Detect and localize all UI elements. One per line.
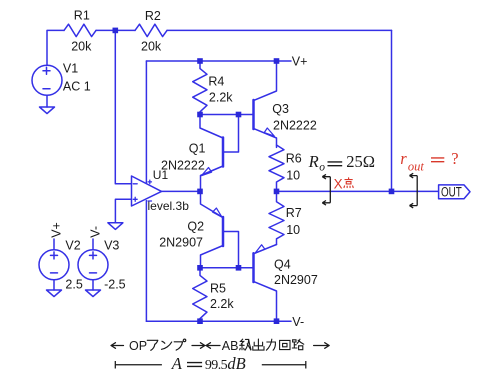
wire top-left from V1 to R1 [47,30,64,65]
node net B at R5 top [197,265,203,271]
svg-text:2.2k: 2.2k [209,91,233,105]
wire V3 to ground [92,280,94,290]
transistor Q2 [201,191,239,267]
transistor Q4 [254,245,277,322]
wire non-inverting input to ground [115,199,131,223]
kanji pu (katakana) [174,339,186,350]
svg-text:V+: V+ [50,222,64,238]
svg-text:X: X [334,176,343,191]
svg-text:20k: 20k [141,39,162,53]
node Q3 collector on V+ rail [274,58,280,64]
node X point at R6-R7 [274,189,280,195]
svg-text:Q4: Q4 [274,258,291,272]
wire net B [200,267,254,269]
bottom annotation row 1 [111,343,329,349]
voltage source V3 [78,250,108,280]
kanji shutsu (out) [253,339,264,350]
ground at op-amp non-inverting input [108,223,123,230]
voltage source V1 [32,65,62,95]
arrow right (AB section) [314,343,330,349]
svg-text:R4: R4 [208,75,224,89]
wire net A [200,114,254,116]
svg-text:-2.5: -2.5 [104,277,126,291]
op-amp input marks [133,184,137,202]
svg-text:25Ω: 25Ω [346,152,375,171]
svg-text:A: A [171,354,183,373]
arrow left (AB section) [206,343,220,349]
wire op-amp V- stub down to V- rail [145,201,147,322]
node Q4 collector on V- rail [274,318,280,324]
svg-text:R2: R2 [145,9,161,23]
resistor R6 [269,145,284,191]
svg-text:Q1: Q1 [189,142,206,156]
junction nodes [113,28,395,324]
V- rail wire [146,320,291,322]
svg-text:2.5: 2.5 [65,277,82,291]
wire V3 top flag [92,239,94,250]
wire V2 top flag [53,239,55,250]
ground under V1 [40,107,55,114]
label X point (red) [334,176,354,191]
svg-text:R7: R7 [286,206,302,220]
resistor R4 [193,61,207,115]
svg-text:out: out [408,159,425,173]
arrow right (OP amp section) [192,343,205,349]
node net A at Q1 base [236,112,242,118]
ground under V2 [47,290,62,297]
kanji ten (point) [344,178,353,188]
kanji a (katakana) [147,340,158,350]
voltage source V2 [39,250,69,280]
svg-text:Q3: Q3 [272,102,289,116]
measurement bracket at r_out [410,173,418,208]
svg-text:10: 10 [286,223,300,237]
svg-text:U1: U1 [153,168,169,182]
node net A at R4 bottom [197,112,203,118]
kanji ryoku (power) [266,339,275,350]
V+ rail wire [146,60,291,62]
node R4 top on V+ rail [197,58,203,64]
wire op-amp output [162,190,201,192]
wire node A to R2 [115,29,135,31]
svg-text:level.3b: level.3b [148,199,190,213]
port OUT [439,185,470,199]
op-amp power marks [148,180,151,201]
svg-text:99.5: 99.5 [205,358,228,373]
op-amp U1 triangle [132,176,162,206]
bottom annotation row 2 dimension lines [115,361,305,369]
svg-text:2.2k: 2.2k [210,297,234,311]
node op-amp output [197,189,203,195]
svg-text:AC 1: AC 1 [63,79,91,93]
svg-text:r: r [400,149,407,168]
wire inverting input [115,30,131,183]
svg-text:20k: 20k [71,39,92,53]
svg-text:OUT: OUT [441,184,462,200]
wire X line [277,190,439,192]
svg-text:2N2907: 2N2907 [274,273,318,287]
svg-text:V+: V+ [292,55,308,69]
svg-text:OP: OP [129,339,147,353]
node feedback tap on X line [389,189,395,195]
svg-text:V2: V2 [65,239,80,253]
node R5 bottom on V- rail [197,318,203,324]
resistor R2 [135,24,167,36]
svg-text:R: R [308,152,319,171]
kanji n (katakana) [162,341,172,349]
left dimension line [115,361,162,369]
svg-text:V-: V- [89,226,103,238]
transistor Q3 [254,61,277,147]
svg-text:V-: V- [292,315,304,329]
svg-text:R1: R1 [74,9,90,23]
resistor R1 [64,24,96,36]
kanji ro (road) [292,339,304,350]
svg-text:dB: dB [227,354,245,373]
svg-text:10: 10 [286,169,300,183]
svg-text:R5: R5 [210,282,226,296]
svg-text:2N2222: 2N2222 [273,119,317,133]
measurement bracket at X point [322,174,330,205]
node R1-R2 junction [113,28,119,34]
svg-text:AB: AB [222,339,239,353]
svg-text:Q2: Q2 [187,219,204,233]
arrow left (OP amp section) [111,343,124,349]
resistor R5 [193,268,207,321]
svg-text:o: o [319,161,325,173]
svg-text:R6: R6 [286,151,302,165]
wire R2 to feedback corner [167,29,392,31]
wire op-amp V+ stub [145,61,147,183]
ground under V3 [86,290,101,297]
wire V1 to ground [46,96,48,108]
svg-text:V1: V1 [63,62,78,76]
svg-text:2N2907: 2N2907 [159,235,203,249]
node net B at Q2 base [236,265,242,271]
wire V2 to ground [53,280,55,290]
kanji kyuu (class) [240,339,251,350]
annotation formulas [171,149,459,373]
resistor R7 [269,191,284,244]
right dimension line [262,361,306,369]
wire R1 to node A [96,29,115,31]
svg-text:V3: V3 [104,239,119,253]
wire feedback vertical [391,30,393,191]
svg-text:?: ? [451,149,458,168]
transistor Q1 [200,115,239,192]
kanji kai (circuit) [280,340,290,349]
